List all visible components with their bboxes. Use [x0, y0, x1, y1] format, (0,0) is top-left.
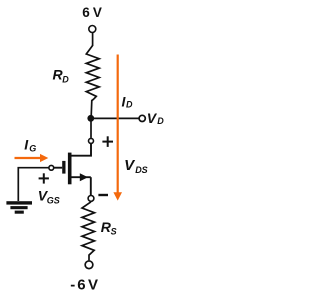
terminal source	[88, 196, 94, 202]
svg-text:D: D	[157, 116, 164, 126]
wire to VD	[91, 117, 139, 119]
svg-text:DS: DS	[135, 165, 148, 175]
wire supply to RD	[92, 33, 94, 46]
arrow IG (orange)	[15, 157, 41, 159]
terminal +6V	[89, 26, 96, 33]
svg-text:-6V: -6V	[70, 277, 98, 294]
resistor RD	[86, 46, 99, 117]
terminal gate	[49, 165, 54, 170]
minus sign VDS/source	[98, 194, 108, 196]
ground	[6, 201, 32, 214]
svg-text:GS: GS	[47, 196, 60, 206]
transistor Q1 channel bar	[68, 153, 72, 185]
terminal drain	[89, 138, 94, 143]
resistor RS	[82, 202, 95, 261]
wire junction to drain terminal	[90, 121, 92, 138]
transistor Q1 drain lead	[72, 144, 92, 156]
plus sign VDS	[102, 136, 113, 147]
svg-text:S: S	[111, 227, 117, 237]
transistor Q1 source lead with arrow	[72, 176, 91, 178]
terminal VD	[139, 115, 145, 121]
plus sign VGS	[39, 173, 49, 183]
svg-text:D: D	[62, 74, 69, 84]
node drain junction	[87, 115, 94, 122]
wire gate to bar	[54, 167, 62, 169]
svg-text:D: D	[126, 100, 133, 110]
svg-text:G: G	[29, 143, 36, 153]
wire gate to ground	[18, 168, 48, 201]
arrow ID / VDS (orange)	[117, 55, 119, 194]
svg-text:6V: 6V	[82, 5, 102, 20]
transistor Q1 gate bar	[62, 161, 65, 174]
terminal -6V	[85, 261, 93, 269]
